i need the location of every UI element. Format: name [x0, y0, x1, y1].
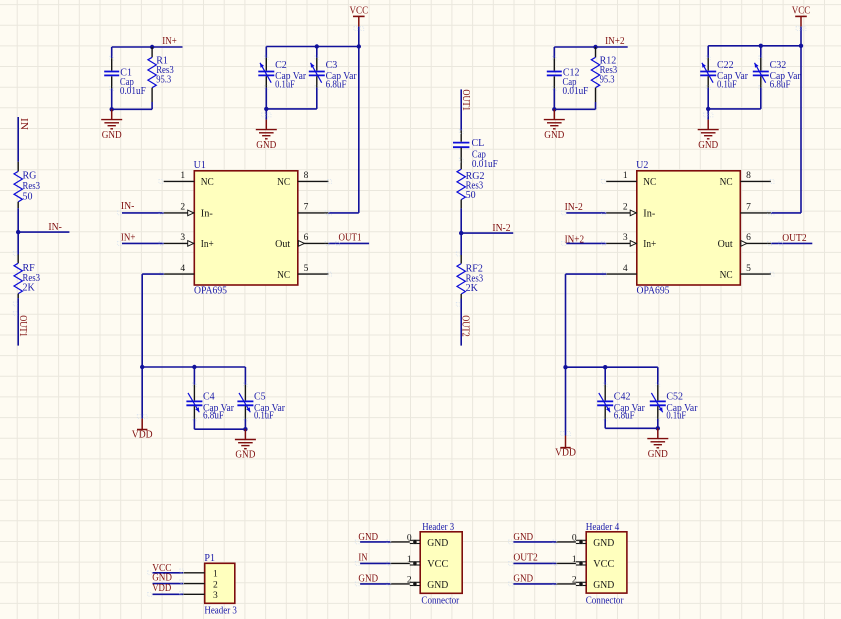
- net label IN+2: [605, 36, 625, 47]
- svg-text:C2: C2: [275, 60, 287, 71]
- wire: [708, 108, 761, 110]
- resistor R1: [148, 47, 174, 102]
- wire OUT2: [768, 242, 813, 246]
- capacitor C42 (Cap Var): [597, 367, 645, 421]
- svg-text:OUT2: OUT2: [459, 315, 470, 337]
- wire: [17, 232, 19, 254]
- pin 8: [720, 171, 774, 188]
- connector P1: [204, 553, 237, 617]
- pin 7: [298, 203, 332, 215]
- net label GND: [358, 573, 378, 584]
- svg-text:CL: CL: [472, 138, 485, 149]
- capacitor C1: [104, 47, 146, 97]
- net label IN-: [121, 201, 134, 212]
- svg-text:2: 2: [623, 203, 628, 213]
- net label GND: [513, 532, 533, 543]
- svg-text:VCC: VCC: [792, 5, 811, 16]
- wire pin4 to VDD rail: [142, 274, 164, 367]
- pin 1: [407, 555, 448, 570]
- wire: [141, 367, 143, 419]
- svg-text:OUT1: OUT1: [17, 315, 28, 337]
- svg-text:GND: GND: [648, 449, 668, 460]
- pin 1: [572, 555, 614, 570]
- resistor RG2: [457, 169, 485, 208]
- net label VDD: [152, 583, 171, 594]
- wire IN: [355, 562, 410, 566]
- junction node IN-: [16, 230, 20, 234]
- pin 3: [183, 591, 218, 601]
- svg-text:GND: GND: [427, 538, 448, 549]
- pin 2: [183, 580, 218, 590]
- ground GND: [544, 109, 565, 141]
- net label GND: [152, 572, 172, 583]
- wire: [460, 208, 462, 233]
- power port VCC: [792, 5, 811, 45]
- svg-text:2: 2: [180, 203, 185, 213]
- junction: [110, 107, 114, 111]
- svg-text:NC: NC: [277, 177, 290, 188]
- capacitor C32 (Cap Var): [753, 46, 801, 91]
- resistor R12: [591, 47, 617, 102]
- wire: [244, 419, 246, 429]
- wire: [111, 88, 113, 109]
- wire: [605, 427, 658, 429]
- svg-text:GND: GND: [152, 572, 172, 583]
- wire VCC vertical: [358, 47, 360, 213]
- svg-text:50: 50: [23, 192, 33, 203]
- wire IN-2: [461, 232, 513, 234]
- pin 1: [159, 171, 214, 188]
- pin 2: [606, 203, 656, 220]
- wire IN+2 net: [554, 46, 627, 48]
- svg-text:0.01uF: 0.01uF: [120, 86, 146, 97]
- net label IN-2: [492, 223, 510, 234]
- pin 0: [572, 533, 615, 549]
- svg-text:NC: NC: [643, 177, 656, 188]
- svg-text:0.01uF: 0.01uF: [472, 159, 498, 170]
- wire: [553, 88, 555, 109]
- wire: [17, 208, 19, 232]
- svg-text:7: 7: [746, 203, 751, 213]
- svg-text:0.01uF: 0.01uF: [563, 86, 589, 97]
- junction: [603, 365, 607, 369]
- svg-text:C22: C22: [717, 60, 734, 71]
- svg-text:GND: GND: [698, 140, 718, 151]
- wire pin7 to VCC: [768, 211, 801, 215]
- junction: [563, 365, 567, 369]
- capacitor C12: [547, 47, 589, 97]
- pin 6: [275, 233, 328, 250]
- svg-text:Header 3: Header 3: [422, 522, 454, 533]
- wire GND: [509, 582, 576, 586]
- junction: [799, 44, 803, 48]
- svg-text:GND: GND: [102, 130, 122, 141]
- ground GND: [235, 429, 256, 461]
- svg-text:IN: IN: [358, 552, 367, 563]
- pin 4: [603, 264, 637, 276]
- ground GND: [647, 428, 668, 460]
- wire: [265, 88, 267, 109]
- pin 6: [718, 233, 771, 250]
- svg-text:GND: GND: [544, 130, 564, 141]
- svg-text:0.1uF: 0.1uF: [717, 80, 737, 91]
- svg-text:OPA695: OPA695: [637, 286, 670, 297]
- svg-text:6: 6: [304, 233, 309, 243]
- junction: [315, 44, 319, 48]
- wire pin4 to VDD rail: [566, 274, 607, 367]
- svg-text:IN+: IN+: [162, 36, 177, 47]
- wire: [456, 252, 461, 346]
- capacitor C52 (Cap Var): [650, 367, 698, 421]
- wire: [13, 252, 18, 346]
- svg-text:6.8uF: 6.8uF: [326, 80, 347, 91]
- svg-text:GND: GND: [256, 140, 276, 151]
- svg-text:C3: C3: [326, 60, 338, 71]
- pin 2: [407, 575, 449, 591]
- svg-text:1: 1: [180, 171, 185, 181]
- wire: [604, 419, 606, 428]
- capacitor C22 (Cap Var): [700, 46, 748, 91]
- power port VCC: [350, 5, 369, 46]
- svg-text:95.3: 95.3: [156, 74, 171, 85]
- net label OUT1: [339, 233, 362, 244]
- net label IN-2: [565, 202, 583, 213]
- connector Header 4: [586, 522, 627, 606]
- wire VDD rail: [142, 366, 245, 368]
- wire GND: [153, 580, 184, 584]
- svg-text:GND: GND: [235, 450, 255, 461]
- svg-text:Header 4: Header 4: [586, 522, 620, 533]
- wire OUT2: [509, 562, 576, 566]
- svg-text:In+: In+: [643, 239, 656, 250]
- svg-text:IN+2: IN+2: [605, 36, 625, 47]
- svg-text:VDD: VDD: [555, 448, 576, 459]
- svg-text:6.8uF: 6.8uF: [203, 411, 224, 422]
- power port VDD: [132, 415, 153, 441]
- capacitor C2 (Cap Var): [258, 47, 306, 91]
- wire: [460, 89, 462, 130]
- ground GND: [256, 109, 277, 151]
- wire: [565, 367, 567, 435]
- svg-text:50: 50: [466, 190, 476, 201]
- svg-text:95.3: 95.3: [600, 74, 615, 85]
- net label GND: [513, 573, 533, 584]
- svg-text:OPA695: OPA695: [194, 286, 227, 297]
- svg-text:IN+: IN+: [121, 233, 136, 244]
- wire: [193, 419, 195, 429]
- svg-text:4: 4: [623, 264, 628, 274]
- svg-text:GND: GND: [513, 532, 533, 543]
- wire: [657, 419, 659, 428]
- wire: [554, 108, 595, 110]
- svg-text:7: 7: [304, 203, 309, 213]
- svg-text:NC: NC: [720, 270, 733, 281]
- wire IN+2 to pin3: [562, 242, 607, 246]
- svg-text:OUT1: OUT1: [339, 233, 362, 244]
- wire: [460, 233, 462, 255]
- pin 1: [183, 570, 218, 580]
- resistor RG: [14, 162, 40, 208]
- pin 1: [601, 171, 656, 188]
- svg-text:NC: NC: [201, 177, 214, 188]
- svg-text:1: 1: [623, 171, 628, 181]
- pin 2: [164, 203, 214, 220]
- svg-text:OUT2: OUT2: [513, 553, 537, 564]
- svg-text:VCC: VCC: [427, 559, 448, 570]
- svg-text:C42: C42: [614, 391, 631, 402]
- wire: [266, 108, 317, 110]
- junction node IN-2: [459, 231, 463, 235]
- resistor RF: [14, 255, 40, 299]
- pin 0: [407, 533, 449, 549]
- junction: [243, 427, 247, 431]
- op-amp U1: [194, 160, 298, 297]
- svg-text:6: 6: [746, 233, 751, 243]
- wire: [112, 108, 152, 110]
- svg-text:U2: U2: [636, 160, 648, 171]
- op-amp U2: [636, 160, 740, 297]
- pin 4: [160, 264, 194, 276]
- net label OUT2: [513, 553, 537, 564]
- net label OUT1 (vertical): [460, 89, 471, 111]
- svg-text:8: 8: [746, 171, 751, 181]
- ground GND: [101, 109, 122, 141]
- svg-text:2K: 2K: [23, 282, 36, 293]
- svg-text:VCC: VCC: [350, 5, 369, 16]
- svg-text:6.8uF: 6.8uF: [770, 80, 791, 91]
- svg-text:Out: Out: [275, 239, 290, 250]
- svg-text:GND: GND: [513, 573, 533, 584]
- svg-text:C5: C5: [254, 391, 266, 402]
- power port VDD: [555, 432, 576, 459]
- svg-text:0.1uF: 0.1uF: [666, 411, 686, 422]
- pin 5: [277, 264, 331, 281]
- wire GND: [509, 540, 576, 544]
- svg-text:GND: GND: [358, 532, 378, 543]
- svg-text:C32: C32: [770, 60, 787, 71]
- pin 3: [606, 233, 656, 250]
- net label VCC: [152, 563, 172, 574]
- svg-text:VCC: VCC: [593, 559, 614, 570]
- ground GND: [698, 109, 719, 151]
- wire VDD: [148, 591, 184, 596]
- junction: [656, 426, 660, 430]
- net label IN+: [121, 233, 136, 244]
- capacitor C3 (Cap Var): [309, 47, 357, 91]
- svg-text:C52: C52: [666, 391, 683, 402]
- svg-text:Connector: Connector: [586, 596, 624, 607]
- net label OUT1 (vertical): [17, 315, 28, 337]
- junction: [140, 365, 144, 369]
- net label IN: [358, 552, 367, 563]
- junction: [593, 45, 597, 49]
- svg-text:RG: RG: [23, 171, 37, 182]
- pin 2: [572, 575, 615, 591]
- wire: [760, 88, 762, 109]
- wire GND: [355, 582, 410, 586]
- svg-text:U1: U1: [194, 160, 206, 171]
- svg-text:GND: GND: [593, 580, 614, 591]
- svg-text:8: 8: [304, 171, 309, 181]
- capacitor CL: [453, 130, 498, 171]
- junction: [357, 44, 361, 48]
- svg-text:2: 2: [213, 580, 218, 590]
- svg-text:0.1uF: 0.1uF: [275, 80, 295, 91]
- capacitor C5 (Cap Var): [237, 367, 285, 422]
- svg-text:3: 3: [180, 233, 185, 243]
- pin 7: [740, 203, 774, 215]
- wire: [151, 102, 153, 109]
- svg-text:IN-2: IN-2: [565, 202, 583, 213]
- svg-text:In-: In-: [201, 209, 213, 220]
- junction: [150, 45, 154, 49]
- junction: [264, 107, 268, 111]
- wire VDD rail: [566, 366, 658, 368]
- svg-text:Res3: Res3: [23, 181, 41, 192]
- svg-text:GND: GND: [358, 573, 378, 584]
- svg-text:0.1uF: 0.1uF: [254, 411, 274, 422]
- svg-text:Header 3: Header 3: [204, 605, 237, 616]
- svg-text:IN-2: IN-2: [492, 223, 510, 234]
- net label GND: [358, 532, 378, 543]
- wire: [194, 428, 245, 430]
- svg-text:IN+2: IN+2: [565, 235, 585, 246]
- junction: [706, 107, 710, 111]
- svg-text:In-: In-: [643, 209, 655, 220]
- wire VCC: [148, 569, 184, 575]
- svg-text:OUT2: OUT2: [782, 233, 807, 244]
- svg-text:IN-: IN-: [121, 201, 134, 212]
- net label OUT2: [782, 233, 807, 244]
- wire VCC rail: [708, 45, 801, 47]
- resistor RF2: [457, 255, 483, 299]
- junction: [192, 365, 196, 369]
- svg-text:Out: Out: [718, 239, 733, 250]
- svg-text:VDD: VDD: [152, 583, 171, 594]
- wire: [707, 88, 709, 109]
- svg-text:GND: GND: [427, 580, 448, 591]
- wire pin7 to VCC: [325, 211, 359, 215]
- svg-text:C4: C4: [203, 391, 215, 402]
- wire GND: [355, 540, 410, 544]
- connector Header 3: [420, 522, 462, 607]
- net label IN (vertical): [18, 118, 29, 130]
- wire VCC rail: [266, 46, 359, 48]
- svg-text:VDD: VDD: [132, 430, 153, 441]
- svg-text:1: 1: [213, 570, 218, 580]
- svg-text:5: 5: [746, 264, 751, 274]
- svg-text:4: 4: [180, 264, 185, 274]
- wire IN-: [18, 231, 69, 233]
- svg-text:5: 5: [304, 264, 309, 274]
- net label OUT2 (vertical): [459, 315, 470, 337]
- svg-text:6.8uF: 6.8uF: [614, 411, 635, 422]
- junction: [552, 107, 556, 111]
- svg-text:IN: IN: [18, 118, 29, 130]
- net label IN+: [162, 36, 177, 47]
- svg-text:IN-: IN-: [48, 222, 62, 233]
- net label IN+2: [565, 235, 585, 246]
- wire: [316, 88, 318, 109]
- net label IN-: [48, 222, 62, 233]
- wire IN- to pin2: [117, 211, 163, 215]
- svg-text:2K: 2K: [466, 283, 479, 294]
- wire IN-2 to pin2: [562, 211, 607, 215]
- svg-text:NC: NC: [277, 270, 290, 281]
- pin 3: [164, 233, 214, 250]
- svg-text:3: 3: [623, 233, 628, 243]
- wire VCC vertical: [800, 46, 802, 213]
- wire IN+ net: [112, 46, 183, 48]
- svg-text:P1: P1: [204, 553, 215, 564]
- pin 5: [720, 264, 774, 281]
- svg-text:Connector: Connector: [421, 596, 459, 607]
- svg-text:GND: GND: [593, 538, 614, 549]
- wire OUT1: [325, 242, 369, 246]
- pin 8: [277, 171, 331, 188]
- wire IN+ to pin3: [117, 242, 163, 246]
- junction: [759, 44, 763, 48]
- wire: [17, 117, 19, 162]
- svg-text:NC: NC: [720, 177, 733, 188]
- svg-text:3: 3: [213, 591, 218, 601]
- wire: [595, 102, 597, 109]
- svg-text:In+: In+: [201, 239, 214, 250]
- capacitor C4 (Cap Var): [186, 367, 234, 422]
